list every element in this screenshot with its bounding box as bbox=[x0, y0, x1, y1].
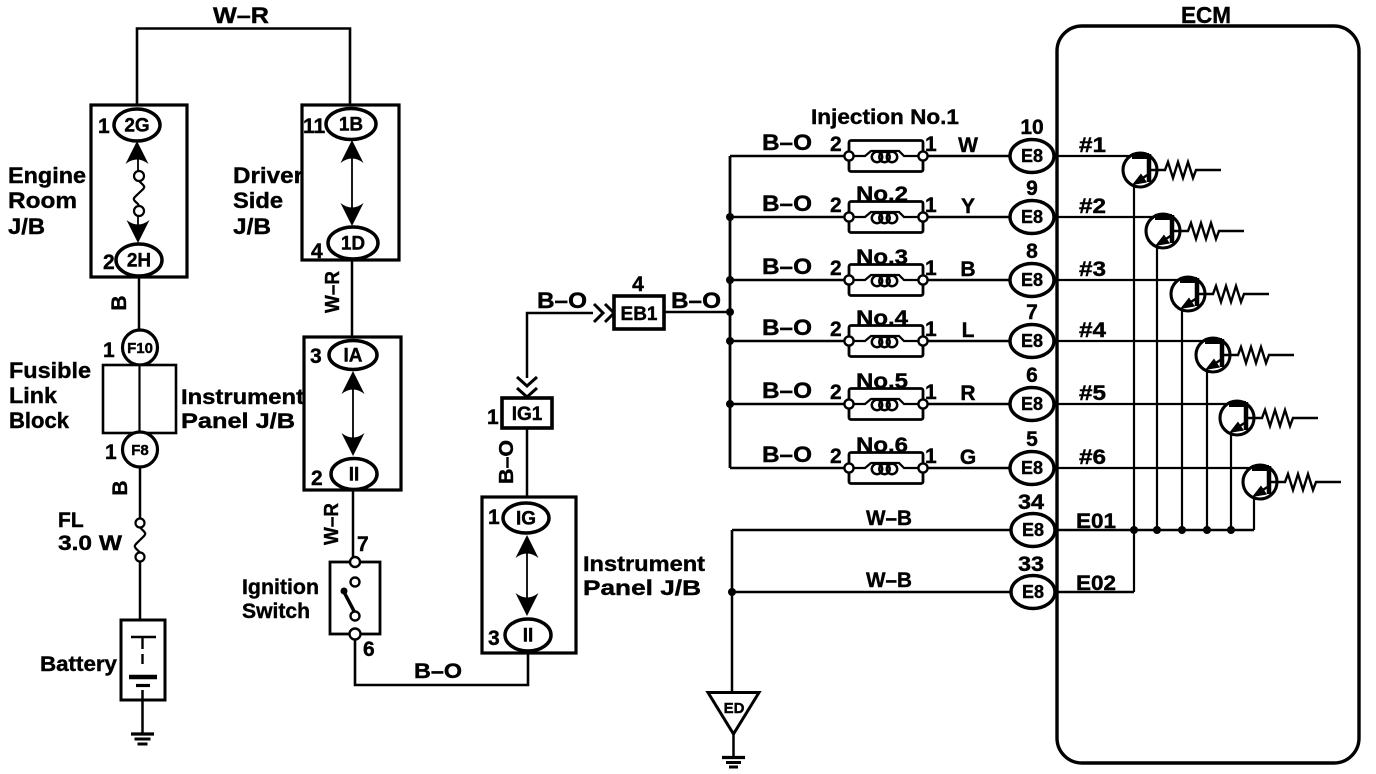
connector E8 row 3 bbox=[1010, 264, 1054, 297]
resistor R5 bbox=[1246, 410, 1318, 426]
svg-text:5: 5 bbox=[1026, 428, 1038, 451]
junction E01 riser at E02 bbox=[728, 588, 736, 596]
wire emitter Q3 to E01 bus bbox=[1181, 308, 1183, 530]
svg-text:L: L bbox=[962, 319, 975, 342]
connector II bbox=[331, 459, 377, 490]
label Fusible Link Block bbox=[9, 358, 91, 433]
connector IA bbox=[329, 341, 377, 370]
svg-text:1: 1 bbox=[925, 133, 937, 156]
transistor Q3 bbox=[1171, 277, 1205, 311]
transistor Q2 bbox=[1146, 214, 1180, 248]
svg-text:ECM: ECM bbox=[1181, 2, 1231, 28]
svg-text:3: 3 bbox=[488, 627, 500, 650]
junction bus row 3 bbox=[726, 276, 734, 284]
resistor R2 bbox=[1172, 223, 1244, 239]
connector E8 row 2 bbox=[1010, 201, 1054, 234]
svg-text:#4: #4 bbox=[1079, 319, 1106, 342]
svg-text:Side: Side bbox=[233, 188, 283, 213]
label Instrument Panel J/B right bbox=[583, 553, 705, 600]
svg-text:2H: 2H bbox=[127, 250, 151, 271]
injector No.4 coil bbox=[844, 326, 927, 357]
svg-text:2: 2 bbox=[830, 318, 842, 341]
junction emitter Q4 on E01 bus bbox=[1203, 526, 1211, 534]
wire E8 to transistor Q5 bbox=[1054, 403, 1246, 405]
svg-text:#3: #3 bbox=[1079, 258, 1106, 281]
arrow down inside Instrument Panel J/B 1 bbox=[342, 433, 365, 456]
connector IG bbox=[503, 503, 549, 533]
wire B-O bus to injector No.4 bbox=[730, 340, 846, 343]
wire inside Instrument Panel J/B 1 bbox=[352, 388, 354, 438]
svg-text:W–R: W–R bbox=[213, 3, 269, 28]
label Driver Side J/B bbox=[233, 163, 303, 239]
transistor Q1 bbox=[1123, 153, 1157, 187]
junction block Instrument Panel J/B box 1 bbox=[304, 337, 401, 490]
wire B-O bus to injector No.6 bbox=[730, 467, 846, 470]
svg-text:2: 2 bbox=[103, 251, 115, 274]
svg-text:1: 1 bbox=[487, 406, 499, 429]
wire W-B E01 left segment bbox=[732, 529, 1012, 532]
svg-text:7: 7 bbox=[357, 533, 369, 556]
svg-text:EB1: EB1 bbox=[621, 304, 658, 325]
label Ignition Switch bbox=[242, 576, 319, 623]
junction bus row 5 bbox=[726, 400, 734, 408]
junction bus row 4 bbox=[726, 337, 734, 345]
svg-text:G: G bbox=[960, 446, 976, 469]
wire ED to ground bbox=[732, 734, 735, 757]
svg-text:E8: E8 bbox=[1021, 207, 1043, 227]
wire B from F8 to FL bbox=[139, 467, 142, 519]
svg-text:10: 10 bbox=[1020, 116, 1043, 139]
svg-text:Instrument: Instrument bbox=[181, 386, 304, 409]
svg-text:Block: Block bbox=[9, 408, 70, 433]
junction emitter Q1 on E01 bus bbox=[1130, 526, 1138, 534]
svg-text:11: 11 bbox=[303, 115, 326, 138]
label FL 3.0 W bbox=[58, 509, 122, 555]
wire B-O bus to injector No.3 bbox=[730, 279, 846, 282]
wire B-O bus to injector No.2 bbox=[730, 216, 846, 219]
svg-text:2: 2 bbox=[830, 445, 842, 468]
svg-text:W–R: W–R bbox=[321, 502, 343, 545]
svg-text:7: 7 bbox=[1026, 301, 1038, 324]
svg-text:Link: Link bbox=[9, 383, 58, 408]
svg-text:4: 4 bbox=[311, 240, 323, 263]
svg-text:2G: 2G bbox=[124, 115, 149, 136]
wire B from 2H to F10 bbox=[138, 277, 141, 331]
battery box bbox=[121, 620, 165, 700]
junction block Driver Side J/B box bbox=[302, 105, 399, 260]
injector No.2 coil bbox=[844, 202, 927, 233]
connector E8 E01 bbox=[1011, 514, 1055, 547]
wire battery to ground bbox=[141, 690, 144, 733]
ignition switch contacts bbox=[341, 557, 361, 640]
svg-text:6: 6 bbox=[363, 638, 375, 661]
connector EB1 box bbox=[614, 296, 664, 329]
wire emitter Q1 to E01 bus bbox=[1133, 184, 1135, 530]
label Instrument Panel J/B left bbox=[181, 386, 304, 433]
svg-text:8: 8 bbox=[1026, 240, 1038, 263]
wire injector No.3 to E8 bbox=[928, 279, 1012, 281]
svg-text:34: 34 bbox=[1018, 491, 1044, 514]
svg-text:B–O: B–O bbox=[537, 288, 587, 313]
svg-text:W–B: W–B bbox=[866, 507, 912, 530]
arrow up inside Instrument Panel J/B 1 bbox=[342, 371, 365, 394]
svg-text:1: 1 bbox=[98, 115, 110, 138]
svg-text:F10: F10 bbox=[127, 340, 153, 357]
svg-text:#1: #1 bbox=[1079, 134, 1106, 157]
fuse F10 bbox=[123, 330, 158, 365]
svg-text:B–O: B–O bbox=[496, 440, 518, 484]
junction block Engine Room J/B box bbox=[91, 105, 187, 277]
junction EB1 wire to bus bbox=[726, 308, 734, 316]
wire W-B E02 segment bbox=[732, 591, 1012, 594]
arrows into EB1 bbox=[594, 304, 614, 322]
svg-text:Fusible: Fusible bbox=[9, 358, 91, 383]
arrows into IG1 bbox=[517, 377, 537, 397]
arrow down inside Driver Side J/B bbox=[341, 203, 364, 226]
connector E8 E02 bbox=[1011, 576, 1055, 609]
junction block Instrument Panel J/B box 2 bbox=[482, 497, 576, 653]
fusible link FL 3.0W symbol bbox=[135, 519, 146, 562]
wire B-O corner to EB1 arrows bbox=[527, 313, 593, 378]
resistor R3 bbox=[1197, 286, 1269, 302]
fuse F8 bbox=[123, 432, 158, 467]
junction bus row 2 bbox=[726, 213, 734, 221]
wire E8 to transistor Q2 bbox=[1054, 216, 1172, 218]
arrow up inside Driver Side J/B bbox=[341, 140, 364, 163]
wire through fusible link block bbox=[138, 365, 140, 433]
battery plates bbox=[129, 637, 157, 686]
wire W-R 1D to IA bbox=[351, 260, 354, 337]
svg-text:J/B: J/B bbox=[8, 214, 45, 239]
resistor R1 bbox=[1149, 162, 1221, 178]
connector E8 row 5 bbox=[1010, 388, 1054, 421]
fusible link symbol inside Engine Room J/B bbox=[134, 171, 145, 216]
injector No.1 coil bbox=[844, 141, 927, 172]
svg-text:B–O: B–O bbox=[762, 315, 812, 340]
resistor R4 bbox=[1222, 347, 1294, 363]
injector No.3 coil bbox=[844, 265, 927, 296]
svg-text:E8: E8 bbox=[1021, 270, 1043, 290]
injector No.6 coil bbox=[844, 453, 927, 484]
wire injector No.4 to E8 bbox=[928, 340, 1012, 342]
arrow down inside Engine Room J/B bbox=[127, 220, 150, 243]
svg-text:#5: #5 bbox=[1079, 382, 1106, 405]
svg-text:B–O: B–O bbox=[762, 254, 812, 279]
svg-text:II: II bbox=[523, 625, 534, 646]
svg-text:E8: E8 bbox=[1021, 394, 1043, 414]
svg-text:6: 6 bbox=[1026, 364, 1038, 387]
svg-text:1: 1 bbox=[488, 506, 500, 529]
wire E01 ground bus inside ECM bbox=[1054, 529, 1254, 531]
svg-text:Instrument: Instrument bbox=[583, 553, 705, 576]
wire inside Engine Room J/B bbox=[137, 158, 139, 172]
transistor Q4 bbox=[1196, 338, 1230, 372]
svg-text:E8: E8 bbox=[1021, 146, 1043, 166]
svg-text:W–B: W–B bbox=[866, 569, 912, 592]
svg-text:9: 9 bbox=[1026, 177, 1038, 200]
svg-text:#6: #6 bbox=[1079, 446, 1106, 469]
svg-text:W: W bbox=[958, 134, 978, 157]
fusible link block box bbox=[103, 365, 176, 433]
svg-text:1: 1 bbox=[925, 381, 937, 404]
svg-text:B: B bbox=[960, 258, 975, 281]
connector 1D bbox=[328, 227, 378, 259]
wire B-O IG1 to IG bbox=[526, 428, 529, 498]
svg-text:B–O: B–O bbox=[671, 288, 721, 313]
connector IG1 box bbox=[502, 398, 552, 428]
wire E8 to transistor Q1 bbox=[1054, 155, 1149, 157]
svg-text:E8: E8 bbox=[1021, 458, 1043, 478]
arrow up inside Engine Room J/B bbox=[126, 141, 149, 164]
svg-text:B–O: B–O bbox=[762, 191, 812, 216]
label Engine Room J/B bbox=[8, 163, 86, 239]
connector E8 row 6 bbox=[1010, 452, 1054, 485]
wire inside Instrument Panel J/B 2 bbox=[526, 552, 528, 598]
junction emitter Q3 on E01 bus bbox=[1178, 526, 1186, 534]
connector 1B bbox=[326, 109, 376, 140]
wire emitter Q6 to E01 bus bbox=[1253, 496, 1255, 530]
svg-text:Engine: Engine bbox=[8, 163, 86, 188]
arrow up inside Instrument Panel J/B 2 bbox=[516, 535, 539, 558]
svg-text:E8: E8 bbox=[1022, 582, 1044, 602]
wire E8 to transistor Q3 bbox=[1054, 279, 1197, 281]
svg-text:#2: #2 bbox=[1079, 195, 1106, 218]
ground ED bbox=[722, 758, 745, 768]
svg-text:Switch: Switch bbox=[242, 600, 310, 623]
svg-text:1: 1 bbox=[925, 318, 937, 341]
svg-text:1: 1 bbox=[925, 194, 937, 217]
resistor R6 bbox=[1269, 474, 1341, 490]
svg-text:2: 2 bbox=[830, 194, 842, 217]
svg-text:33: 33 bbox=[1018, 553, 1044, 576]
svg-text:II: II bbox=[349, 464, 360, 485]
wire injector No.5 to E8 bbox=[928, 403, 1012, 405]
wire E02 junction down to ED bbox=[731, 592, 734, 692]
connector 2G bbox=[114, 109, 160, 141]
connector E8 row 4 bbox=[1010, 325, 1054, 358]
ground connector ED triangle bbox=[708, 693, 759, 735]
svg-text:Ignition: Ignition bbox=[242, 576, 319, 599]
wire E8 to transistor Q6 bbox=[1054, 467, 1269, 469]
svg-text:2: 2 bbox=[830, 381, 842, 404]
wire emitter Q4 to E01 bus bbox=[1206, 369, 1208, 530]
wire injector No.1 to E8 bbox=[928, 155, 1012, 157]
svg-text:B–O: B–O bbox=[762, 442, 812, 467]
connector E8 row 1 bbox=[1010, 140, 1054, 173]
connector II 2 bbox=[505, 619, 551, 651]
svg-text:3.0 W: 3.0 W bbox=[58, 532, 122, 555]
arrow down inside Instrument Panel J/B 2 bbox=[516, 593, 539, 616]
svg-text:Room: Room bbox=[8, 188, 77, 213]
svg-text:3: 3 bbox=[310, 345, 322, 368]
wire FL to battery bbox=[139, 561, 142, 620]
wire injector No.2 to E8 bbox=[928, 216, 1012, 218]
connector 2H bbox=[116, 244, 162, 276]
svg-text:R: R bbox=[960, 382, 975, 405]
svg-text:B–O: B–O bbox=[762, 130, 812, 155]
ECM box bbox=[1057, 26, 1359, 763]
wire B-O injector supply bus bbox=[729, 156, 732, 468]
svg-text:1: 1 bbox=[925, 257, 937, 280]
svg-text:1: 1 bbox=[105, 441, 117, 464]
svg-text:FL: FL bbox=[58, 509, 84, 532]
wire W-R from Engine Room J/B to Driver Side J/B bbox=[137, 29, 350, 106]
wire emitter Q2 to E01 bus bbox=[1156, 245, 1158, 530]
svg-text:W–R: W–R bbox=[322, 270, 344, 313]
svg-text:F8: F8 bbox=[131, 442, 149, 459]
svg-text:2: 2 bbox=[830, 257, 842, 280]
wire B-O bus to injector No.1 bbox=[730, 155, 846, 158]
injector No.5 coil bbox=[844, 389, 927, 420]
svg-text:J/B: J/B bbox=[233, 214, 271, 239]
svg-text:B: B bbox=[108, 295, 131, 310]
wire B-O EB1 to injector bus bbox=[664, 311, 730, 314]
svg-text:B: B bbox=[109, 480, 132, 495]
svg-text:Driver: Driver bbox=[233, 163, 303, 188]
svg-text:Panel J/B: Panel J/B bbox=[583, 577, 701, 600]
svg-text:Battery: Battery bbox=[40, 653, 117, 676]
svg-text:2: 2 bbox=[830, 133, 842, 156]
wire E02 to E01 bus riser bbox=[1133, 530, 1135, 592]
junction emitter Q5 on E01 bus bbox=[1227, 526, 1235, 534]
wire B-O bus to injector No.5 bbox=[730, 403, 846, 406]
svg-text:1: 1 bbox=[103, 339, 115, 362]
svg-text:1D: 1D bbox=[341, 233, 365, 254]
wire E01 corner to E02 bbox=[731, 530, 734, 592]
svg-text:E8: E8 bbox=[1022, 520, 1044, 540]
wire W-R II to ignition switch bbox=[352, 490, 355, 562]
ground battery bbox=[131, 734, 154, 744]
svg-text:Injection No.1: Injection No.1 bbox=[811, 106, 959, 129]
svg-text:Panel J/B: Panel J/B bbox=[181, 410, 295, 433]
wire inside Driver Side J/B bbox=[351, 158, 353, 208]
svg-text:Y: Y bbox=[961, 195, 975, 218]
svg-text:1B: 1B bbox=[339, 114, 363, 135]
svg-text:E8: E8 bbox=[1021, 331, 1043, 351]
wire injector No.6 to E8 bbox=[928, 467, 1012, 469]
ignition switch box bbox=[330, 562, 380, 634]
wire B-O ignition switch to II of Instrument Panel J/B 2 bbox=[355, 640, 528, 685]
svg-text:IA: IA bbox=[344, 345, 363, 366]
svg-text:B–O: B–O bbox=[414, 660, 462, 683]
wire E8 to transistor Q4 bbox=[1054, 340, 1222, 342]
svg-text:ED: ED bbox=[724, 700, 745, 717]
junction emitter Q2 on E01 bus bbox=[1153, 526, 1161, 534]
wire emitter Q5 to E01 bus bbox=[1230, 432, 1232, 530]
svg-text:IG: IG bbox=[516, 508, 536, 529]
svg-text:IG1: IG1 bbox=[512, 404, 543, 425]
svg-text:1: 1 bbox=[925, 445, 937, 468]
transistor Q5 bbox=[1220, 401, 1254, 435]
transistor Q6 bbox=[1243, 465, 1277, 499]
svg-text:B–O: B–O bbox=[762, 378, 812, 403]
svg-text:4: 4 bbox=[632, 273, 644, 296]
svg-text:2: 2 bbox=[311, 467, 323, 490]
